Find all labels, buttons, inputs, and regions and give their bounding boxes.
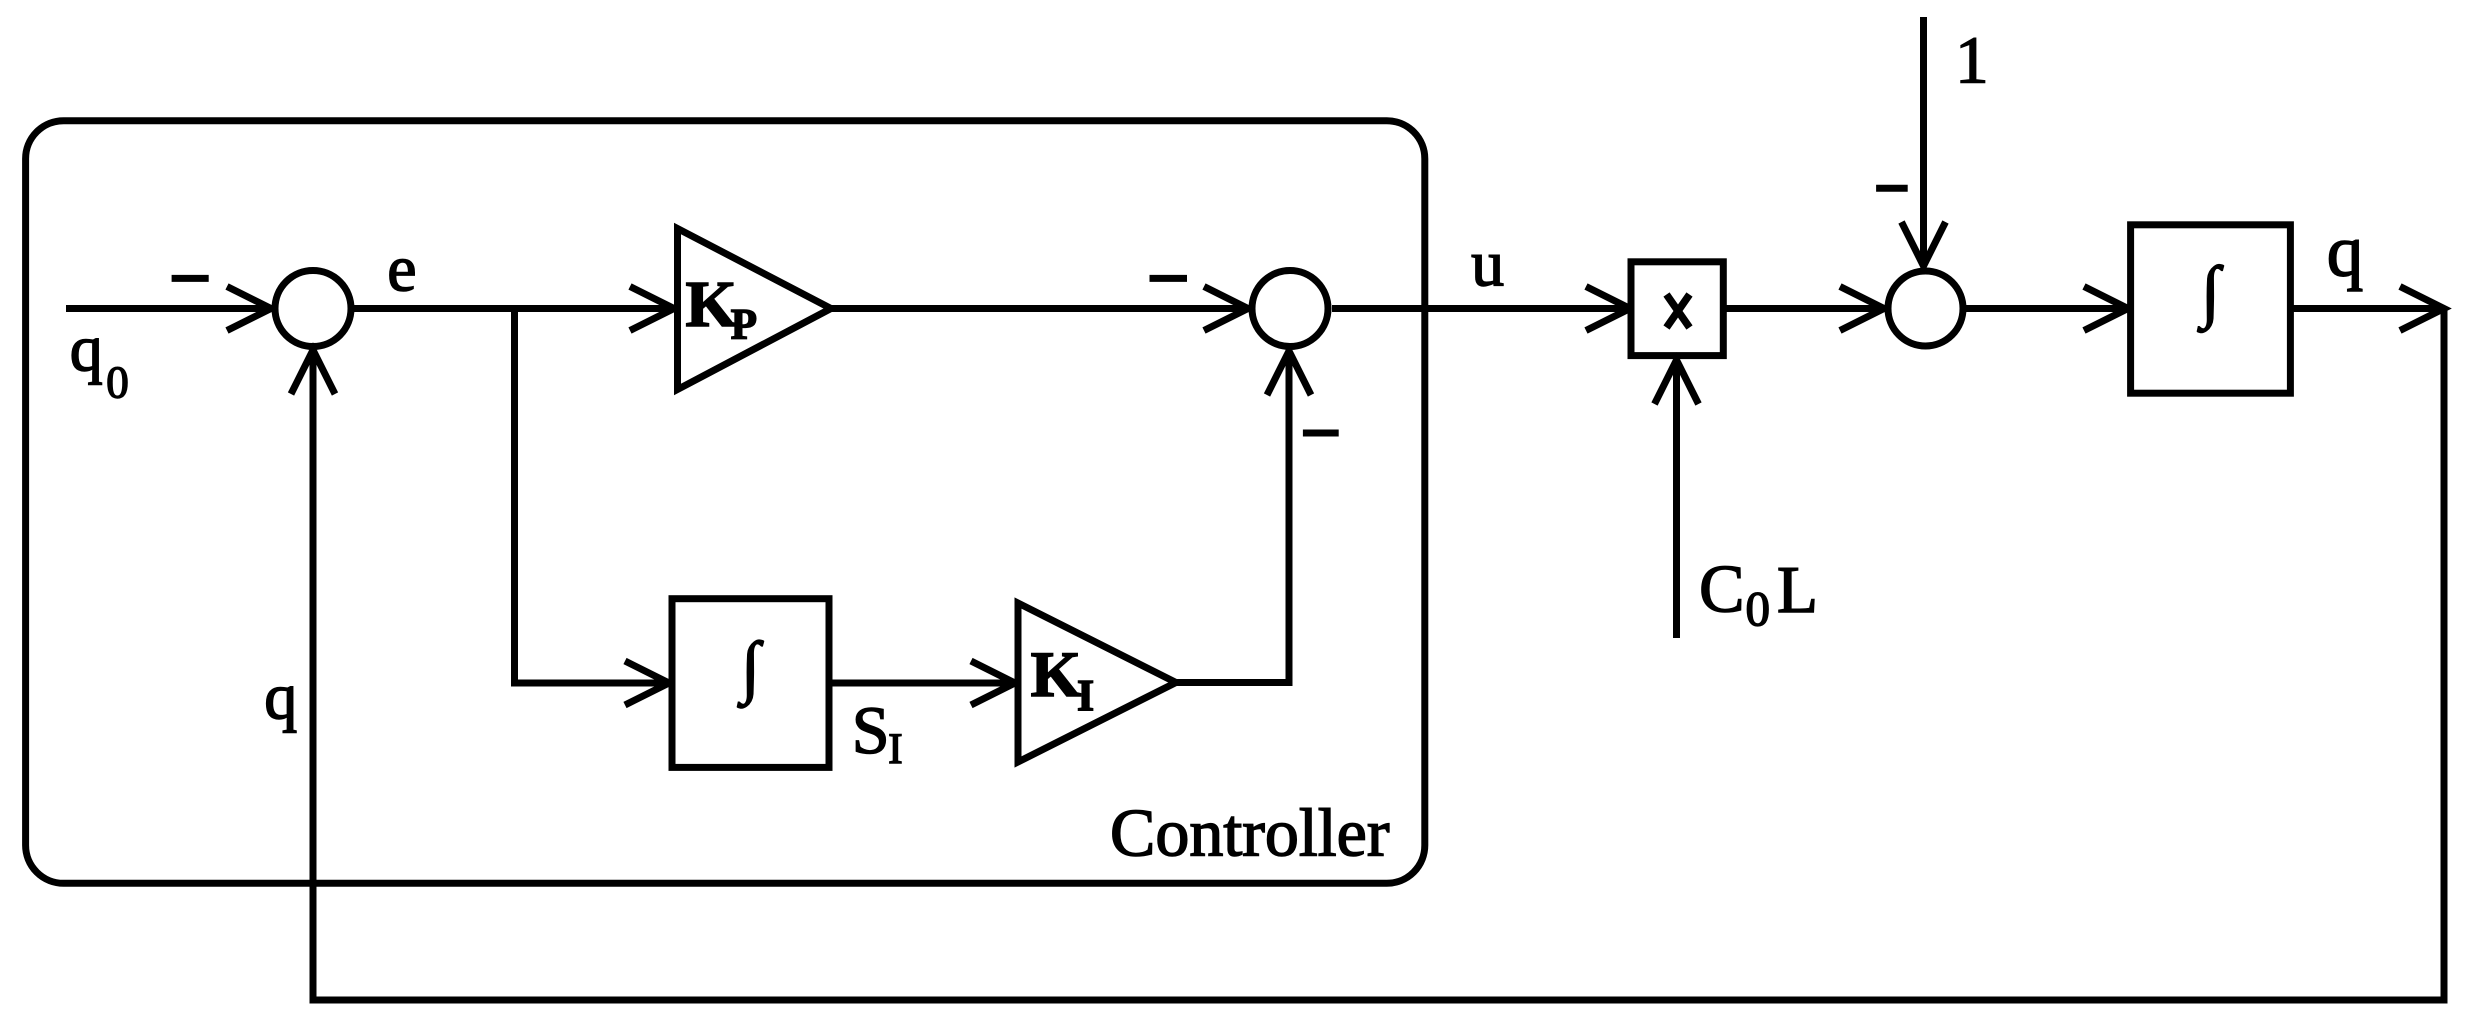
svg-text:I: I: [1077, 671, 1094, 720]
svg-text:I: I: [888, 726, 902, 773]
minus sign on S2 left input: [1150, 275, 1188, 282]
multiplier x glyph: [1667, 295, 1690, 328]
integrator I1 box: [672, 599, 829, 768]
amplifier KP triangle: [678, 229, 832, 390]
svg-text:K: K: [686, 268, 737, 341]
wire u from S2 to multiplier: [1332, 305, 1630, 312]
summing junction S1: [275, 271, 351, 347]
arrowhead up into multiplier bottom: [1655, 360, 1699, 404]
svg-text:L: L: [1777, 553, 1818, 627]
svg-text:u: u: [1471, 227, 1504, 300]
arrowhead up into S1 bottom: [291, 350, 335, 394]
wire multiplier to summing junction S3: [1725, 305, 1884, 312]
wire input q0: [66, 305, 271, 312]
wire KP to summing junction S2: [831, 305, 1248, 312]
summing junction S2: [1252, 271, 1328, 347]
svg-text:1: 1: [1955, 23, 1989, 97]
wire q output from I2: [2290, 305, 2444, 312]
wire I1 to KI: [829, 680, 1015, 687]
wire KI up to S2: [1176, 352, 1289, 683]
wire C0L up into multiplier: [1673, 361, 1680, 638]
wire branch from node e down and to integrator I1: [515, 309, 670, 684]
arrowhead into S2: [1204, 287, 1248, 331]
minus sign on S3 top input: [1876, 185, 1908, 192]
integrator I2 box: [2131, 225, 2291, 393]
arrowhead into integrator I1: [625, 661, 669, 705]
arrowhead into I2: [2084, 287, 2128, 331]
arrowhead into KI: [971, 661, 1015, 705]
arrowhead into S3: [1840, 287, 1884, 331]
wire constant 1 down into S3: [1920, 17, 1927, 265]
multiplier box: [1631, 262, 1723, 356]
svg-text:C: C: [1699, 550, 1744, 626]
svg-text:q: q: [264, 661, 297, 734]
minus sign on S2 bottom input: [1303, 430, 1339, 437]
summing junction S3: [1888, 271, 1963, 346]
arrowhead into KP: [630, 287, 674, 331]
amplifier KI triangle: [1018, 603, 1176, 762]
svg-text:q: q: [2327, 210, 2364, 291]
wire e from S1 to KP: [351, 305, 674, 312]
svg-text:e: e: [387, 233, 416, 306]
svg-text:Controller: Controller: [1110, 795, 1390, 871]
svg-text:P: P: [731, 301, 757, 348]
minus sign on q0 input: [172, 275, 209, 282]
svg-text:S: S: [852, 692, 890, 768]
wire feedback loop: [313, 309, 2444, 1001]
svg-text:K: K: [1031, 639, 1082, 711]
arrowhead into multiplier: [1586, 287, 1630, 331]
controller box: [26, 121, 1425, 884]
arrowhead at output corner: [2400, 287, 2444, 331]
svg-text:0: 0: [106, 357, 129, 407]
arrowhead up into S2 bottom: [1267, 351, 1311, 395]
arrowhead down into S3 top: [1902, 222, 1946, 266]
svg-text:0: 0: [1746, 581, 1771, 636]
svg-text:q: q: [70, 312, 103, 385]
arrowhead into summing junction S1: [227, 287, 271, 331]
wire S3 to integrator I2: [1963, 305, 2128, 312]
